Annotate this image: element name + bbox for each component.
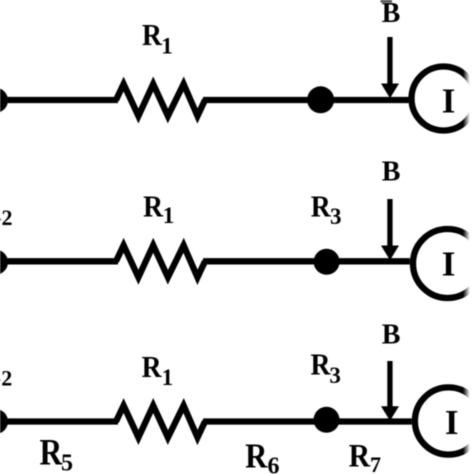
node terminal dot (left, row 1) <box>0 88 8 113</box>
node terminal dot (left, row 2) <box>0 250 8 275</box>
ammeter I (row 3 circle) <box>415 387 474 454</box>
svg-text:1: 1 <box>163 203 175 228</box>
junction node dot (row 3) <box>314 407 340 433</box>
svg-text:B: B <box>382 157 401 188</box>
svg-text:R: R <box>245 438 268 474</box>
wire (row 2, left lead to resistor R1) <box>0 258 118 264</box>
svg-text:R: R <box>349 437 371 474</box>
svg-text:I: I <box>445 403 459 442</box>
svg-text:R: R <box>311 348 332 382</box>
junction node dot (row 2) <box>314 249 340 275</box>
node terminal dot (left, row 3) <box>0 409 8 434</box>
resistor R1 (row 2 zigzag) <box>116 245 205 277</box>
svg-text:R: R <box>40 432 64 473</box>
resistor R1 (row 1 zigzag) <box>116 84 205 116</box>
svg-text:I: I <box>442 82 456 121</box>
ammeter I (row 2 circle) <box>413 229 474 298</box>
svg-text:1: 1 <box>162 365 174 390</box>
svg-text:R: R <box>142 19 163 53</box>
figure crop boundary (right edge white-out fade) <box>463 0 474 474</box>
svg-text:1: 1 <box>161 34 173 59</box>
svg-text:R: R <box>143 190 164 224</box>
cropped text remnant above B (row 1) <box>381 0 393 3</box>
svg-text:-2: -2 <box>0 205 13 230</box>
resistor R1 (row 3 zigzag) <box>116 406 205 438</box>
svg-text:5: 5 <box>61 451 73 474</box>
svg-text:-2: -2 <box>0 366 12 391</box>
wire (row 2, resistor to ammeter) <box>203 258 410 264</box>
svg-text:R: R <box>142 351 163 385</box>
svg-text:I: I <box>442 245 456 284</box>
arrow B (row 1, field arrow into wire) <box>387 37 392 85</box>
arrow B (row 3, field arrow into wire) <box>387 361 392 408</box>
junction node dot (row 1) <box>307 86 334 113</box>
svg-text:B: B <box>382 0 401 29</box>
wire (row 3, left lead to resistor R1) <box>0 418 118 424</box>
ammeter I (row 1 circle) <box>412 67 474 131</box>
wire (row 1, left lead to resistor R1) <box>0 97 118 103</box>
svg-text:B: B <box>382 320 401 351</box>
wire (row 3, resistor to ammeter) <box>203 418 412 424</box>
svg-text:7: 7 <box>370 452 381 474</box>
wire (row 1, resistor to ammeter) <box>203 97 409 103</box>
svg-text:R: R <box>311 190 332 224</box>
svg-text:6: 6 <box>268 454 280 474</box>
svg-text:3: 3 <box>329 363 341 388</box>
svg-text:3: 3 <box>330 204 342 229</box>
arrow B (row 2, field arrow into wire) <box>387 199 392 247</box>
